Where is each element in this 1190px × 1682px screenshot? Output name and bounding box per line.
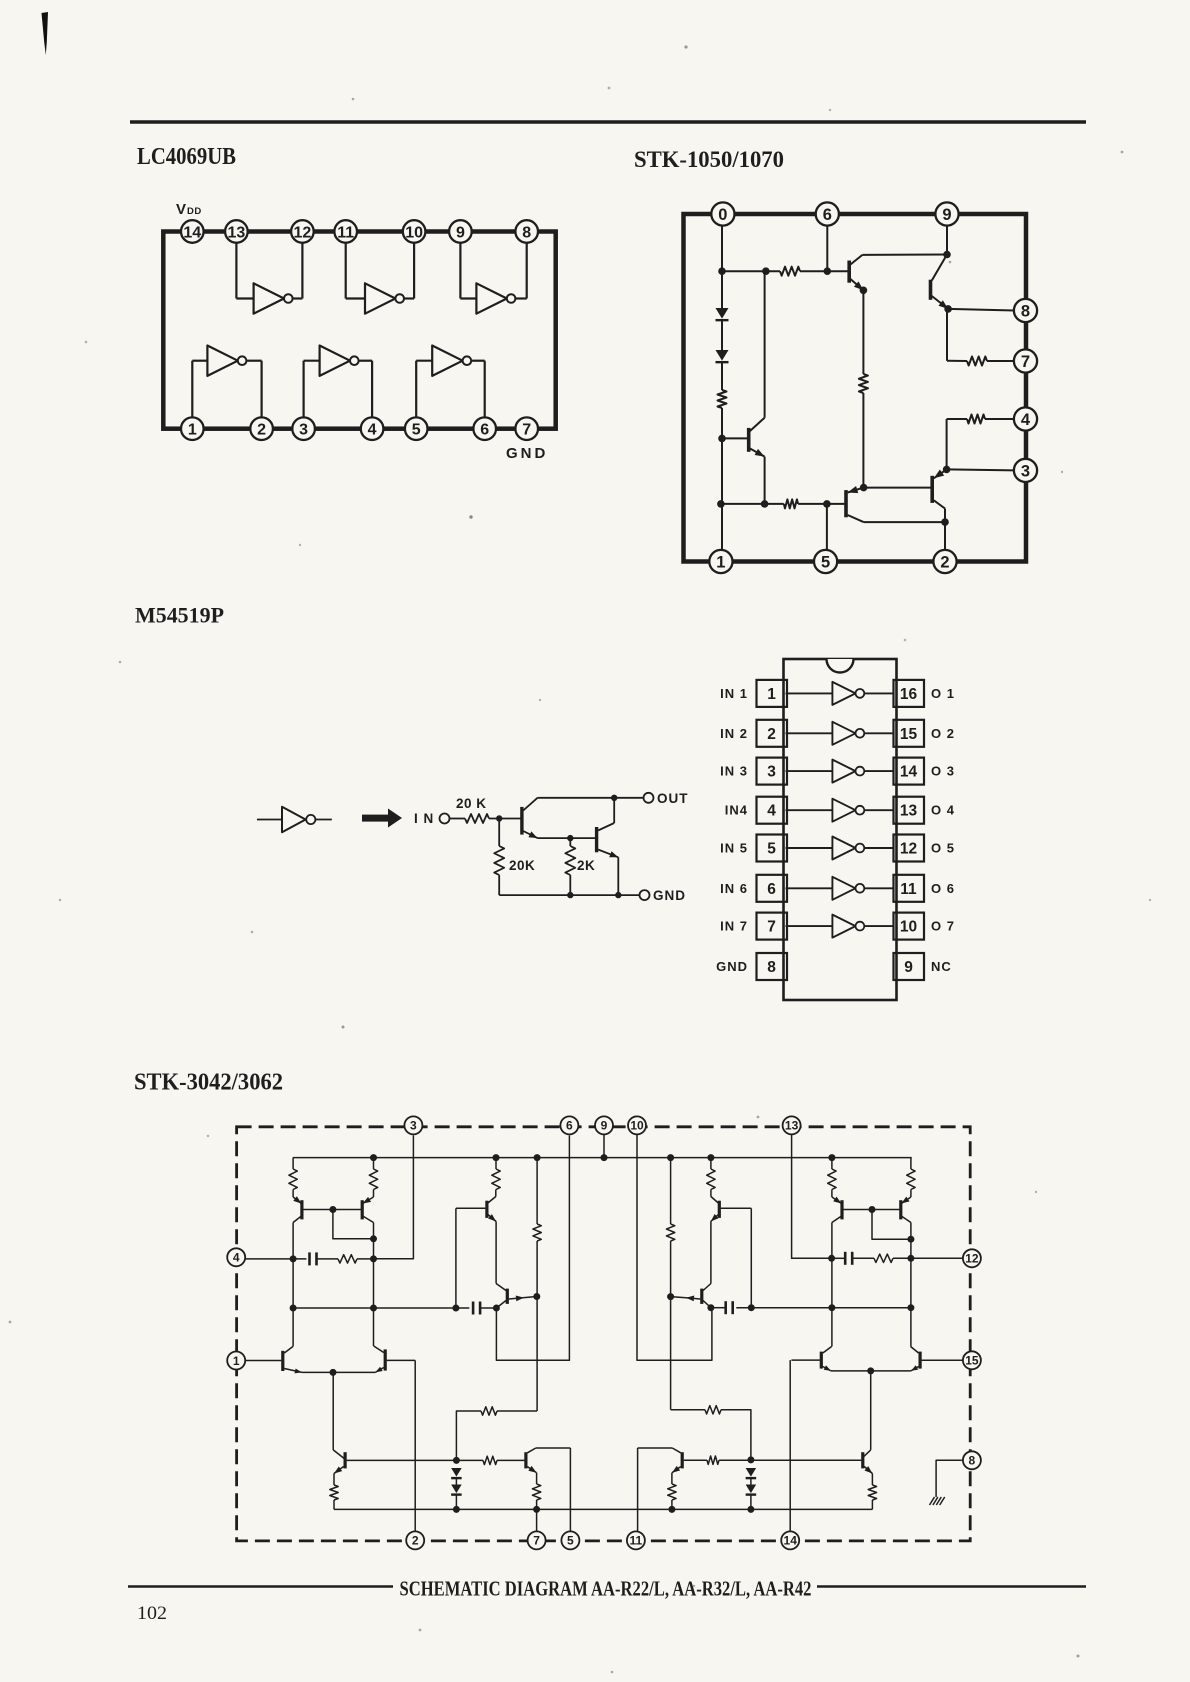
svg-text:I N: I N: [414, 811, 434, 826]
svg-text:0: 0: [718, 206, 727, 224]
svg-text:6: 6: [823, 206, 832, 224]
svg-text:5: 5: [412, 421, 421, 438]
svg-text:3: 3: [1021, 462, 1030, 480]
svg-text:IN 5: IN 5: [720, 841, 748, 856]
svg-text:13: 13: [228, 224, 246, 241]
svg-text:20K: 20K: [509, 858, 535, 873]
svg-text:IN 6: IN 6: [720, 881, 748, 896]
svg-text:13: 13: [900, 803, 918, 820]
svg-text:2: 2: [767, 726, 776, 743]
svg-text:15: 15: [900, 726, 918, 743]
svg-text:10: 10: [405, 224, 423, 241]
svg-text:102: 102: [137, 1603, 167, 1624]
svg-text:8: 8: [767, 959, 776, 976]
svg-text:4: 4: [233, 1251, 240, 1265]
svg-text:4: 4: [368, 421, 377, 438]
svg-text:GND: GND: [716, 959, 748, 974]
svg-text:SCHEMATIC DIAGRAM AA-R22/L, A: SCHEMATIC DIAGRAM AA-R22/L, AA-R32/L, AA…: [400, 1577, 812, 1601]
svg-text:LC4069UB: LC4069UB: [137, 144, 236, 170]
svg-text:5: 5: [767, 841, 776, 858]
svg-text:IN 2: IN 2: [720, 726, 748, 741]
svg-text:12: 12: [900, 841, 917, 858]
svg-text:4: 4: [767, 803, 776, 820]
svg-text:1: 1: [716, 553, 725, 571]
svg-text:9: 9: [601, 1119, 608, 1133]
svg-text:13: 13: [785, 1119, 799, 1133]
svg-text:V: V: [176, 201, 186, 218]
svg-text:8: 8: [522, 224, 531, 241]
svg-text:11: 11: [630, 1534, 643, 1548]
svg-text:O 7: O 7: [931, 919, 955, 934]
svg-text:O 1: O 1: [931, 686, 955, 701]
svg-text:O 5: O 5: [931, 841, 955, 856]
svg-text:GND: GND: [506, 445, 548, 462]
svg-text:3: 3: [299, 421, 308, 438]
svg-text:IN 1: IN 1: [720, 686, 748, 701]
svg-text:IN 7: IN 7: [720, 919, 748, 934]
svg-text:IN4: IN4: [725, 803, 748, 818]
svg-text:2: 2: [940, 553, 949, 571]
svg-text:8: 8: [1021, 302, 1030, 320]
svg-text:O 4: O 4: [931, 803, 955, 818]
svg-text:OUT: OUT: [657, 791, 689, 806]
svg-text:GND: GND: [653, 888, 686, 903]
svg-text:STK-1050/1070: STK-1050/1070: [634, 147, 784, 173]
svg-text:16: 16: [900, 686, 918, 703]
svg-text:7: 7: [533, 1534, 540, 1548]
svg-text:14: 14: [784, 1534, 798, 1548]
svg-text:3: 3: [410, 1119, 417, 1133]
svg-text:1: 1: [767, 686, 776, 703]
svg-text:1: 1: [233, 1354, 240, 1368]
svg-text:5: 5: [821, 553, 830, 571]
svg-text:10: 10: [900, 919, 917, 936]
svg-text:STK-3042/3062: STK-3042/3062: [134, 1070, 283, 1096]
svg-text:11: 11: [337, 224, 354, 241]
svg-text:6: 6: [566, 1119, 573, 1133]
svg-text:2: 2: [257, 421, 266, 438]
svg-text:12: 12: [294, 224, 312, 241]
svg-text:9: 9: [456, 224, 465, 241]
svg-text:12: 12: [965, 1252, 979, 1266]
svg-text:7: 7: [767, 919, 776, 936]
svg-text:10: 10: [630, 1119, 644, 1133]
svg-text:O 6: O 6: [931, 881, 955, 896]
svg-text:5: 5: [567, 1534, 574, 1548]
svg-text:1: 1: [188, 421, 197, 438]
svg-text:11: 11: [900, 881, 917, 898]
svg-text:2: 2: [412, 1534, 419, 1548]
svg-text:14: 14: [183, 224, 201, 241]
svg-text:IN 3: IN 3: [720, 764, 748, 779]
svg-text:O 2: O 2: [931, 726, 955, 741]
svg-text:15: 15: [965, 1354, 979, 1368]
svg-text:6: 6: [480, 421, 489, 438]
svg-text:7: 7: [1021, 353, 1030, 371]
svg-text:20 K: 20 K: [456, 796, 487, 811]
svg-text:NC: NC: [931, 959, 952, 974]
svg-text:9: 9: [904, 959, 913, 976]
svg-text:14: 14: [900, 764, 918, 781]
svg-text:6: 6: [767, 881, 776, 898]
svg-text:3: 3: [767, 764, 776, 781]
svg-text:DD: DD: [187, 206, 202, 217]
svg-text:M54519P: M54519P: [135, 603, 224, 628]
svg-text:O 3: O 3: [931, 764, 955, 779]
svg-text:9: 9: [942, 206, 951, 224]
svg-text:2K: 2K: [577, 858, 595, 873]
svg-text:8: 8: [969, 1454, 976, 1468]
svg-text:7: 7: [522, 421, 531, 438]
svg-text:4: 4: [1021, 411, 1031, 429]
